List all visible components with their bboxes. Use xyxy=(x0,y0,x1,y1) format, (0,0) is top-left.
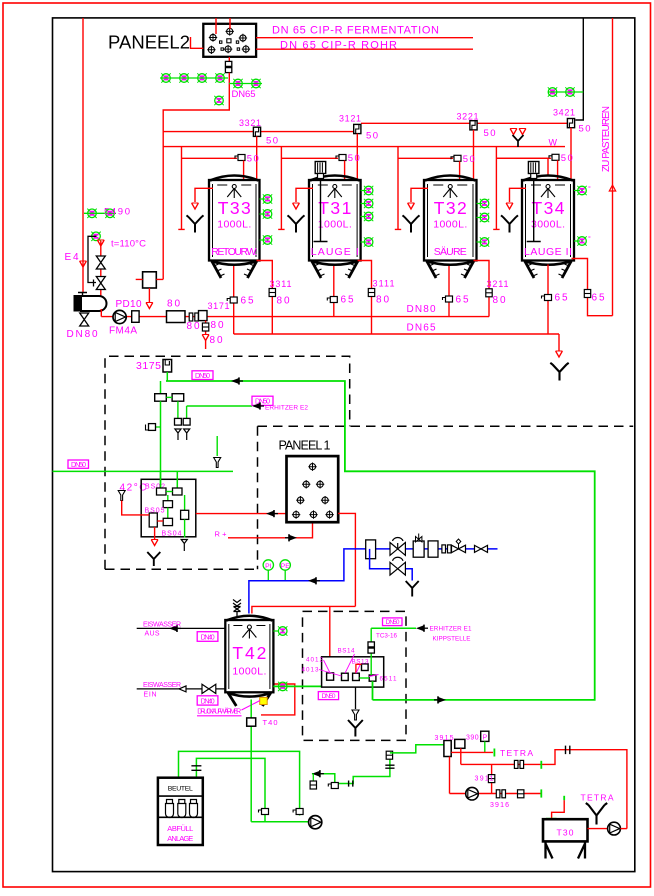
green feeds into box xyxy=(161,471,178,488)
svg-text:50: 50 xyxy=(266,136,278,147)
instrument circle T42 top xyxy=(273,630,278,632)
svg-text:3121: 3121 xyxy=(339,114,361,124)
CIP return funnel T31 xyxy=(288,188,314,232)
CIP-R FERMENTATION line xyxy=(256,37,473,39)
svg-text:AUS: AUS xyxy=(145,630,160,637)
svg-text:3000L.: 3000L. xyxy=(531,219,565,231)
svg-text:1000L.: 1000L. xyxy=(217,219,251,231)
tank T42 xyxy=(225,616,273,706)
group box xyxy=(141,479,196,537)
wire 3175 down xyxy=(166,372,168,381)
svg-text:3171: 3171 xyxy=(208,301,230,311)
pipe coupling below panel xyxy=(225,61,231,72)
T34 outlet valve 65 xyxy=(547,265,549,335)
valve 3421 xyxy=(567,119,574,128)
header line B xyxy=(361,122,567,124)
zu pasteuren pipe xyxy=(612,18,614,316)
svg-text:BEUTEL: BEUTEL xyxy=(168,786,193,793)
svg-text:T32: T32 xyxy=(434,198,467,218)
instrument circle t110 xyxy=(91,232,100,241)
svg-text:65: 65 xyxy=(555,293,568,304)
valve 3911 xyxy=(491,764,493,793)
agitator motor T34 xyxy=(527,162,541,242)
svg-text:°: ° xyxy=(588,235,591,243)
svg-text:DN80: DN80 xyxy=(407,304,436,315)
instrument circles row2 xyxy=(233,79,242,88)
group drain funnel xyxy=(355,687,357,709)
hot water to paneel1 xyxy=(196,513,287,515)
wire panel bottom to coupling xyxy=(228,57,230,62)
T33 outlet valve 65 xyxy=(233,266,235,334)
svg-text:80: 80 xyxy=(211,320,224,331)
small coupler xyxy=(442,545,451,553)
heat exchanger E4 xyxy=(74,293,107,312)
drain valve under exchanger xyxy=(80,313,89,326)
T34 side outlet to pasteur line xyxy=(572,259,613,316)
header line C xyxy=(163,146,565,148)
DN65 header pipe xyxy=(234,333,559,335)
tag DN50 xyxy=(192,371,213,380)
small valve with diamond xyxy=(452,539,466,553)
svg-text:50: 50 xyxy=(463,154,475,165)
T32 outlet valve 65 xyxy=(448,266,450,317)
instrument circles T34 xyxy=(574,186,587,246)
spray arrows between 3221 and 3421 xyxy=(510,129,517,135)
svg-text:3175: 3175 xyxy=(136,360,161,372)
svg-text:DN 65 CIP-R ROHR: DN 65 CIP-R ROHR xyxy=(280,39,397,51)
red pressure circuit xyxy=(261,684,295,715)
DN65 end drop with funnel xyxy=(558,334,560,351)
group box xyxy=(322,657,384,687)
main green supply line xyxy=(166,381,595,700)
valve on branch B xyxy=(259,809,269,815)
agitator motor T31 xyxy=(314,162,328,242)
instrument circles T31 xyxy=(361,186,374,247)
svg-text:SÄURE: SÄURE xyxy=(434,246,467,258)
svg-text:50: 50 xyxy=(579,124,591,135)
arrow on supply line xyxy=(231,377,243,384)
valve 3321 xyxy=(253,127,260,136)
tag DN50 xyxy=(318,692,338,701)
svg-text:80: 80 xyxy=(187,321,200,332)
valve 4013 xyxy=(342,673,349,680)
svg-text:DN 65 CIP-R FERMENTATION: DN 65 CIP-R FERMENTATION xyxy=(272,25,439,37)
funnel under spray arrows xyxy=(513,135,524,147)
terminals xyxy=(308,463,316,471)
svg-text:ABFÜLL: ABFÜLL xyxy=(167,824,193,833)
svg-text:65: 65 xyxy=(456,295,469,306)
svg-text:1000L.: 1000L. xyxy=(433,219,467,231)
dashed box automation left xyxy=(105,356,350,569)
svg-text:3321: 3321 xyxy=(239,118,261,128)
funnel near T30 xyxy=(586,803,607,825)
svg-text:3911: 3911 xyxy=(475,776,494,783)
red feed from paneel xyxy=(252,606,356,613)
suction main xyxy=(251,821,308,823)
valve 6511 xyxy=(369,675,376,681)
tetra line 2 xyxy=(461,750,627,829)
svg-text:TETRA: TETRA xyxy=(581,793,614,803)
svg-text:T31: T31 xyxy=(318,198,351,218)
instrument circles T33 xyxy=(260,194,273,244)
red links in group xyxy=(356,664,362,673)
arrow on heavy return xyxy=(434,696,446,703)
tetra line 3 xyxy=(450,793,542,795)
svg-text:80: 80 xyxy=(277,296,290,307)
svg-text:3916: 3916 xyxy=(490,802,509,809)
steam drop pipe xyxy=(100,241,102,296)
wire coupling down and left xyxy=(163,73,229,280)
T31 outlet valve 65 xyxy=(333,266,335,317)
blue control valve 1 xyxy=(390,537,405,555)
valve BS13 xyxy=(353,673,360,680)
blue main pipe xyxy=(249,549,498,614)
svg-text:50: 50 xyxy=(247,154,259,165)
svg-text:50: 50 xyxy=(484,128,496,139)
svg-text:°: ° xyxy=(588,185,591,193)
T32 side outlet 3211 xyxy=(474,261,490,317)
svg-text:DN40: DN40 xyxy=(201,698,215,705)
inline unit T40 xyxy=(247,718,256,726)
steam valve 2 xyxy=(96,277,105,290)
svg-text:50: 50 xyxy=(561,153,573,164)
svg-text:ERHITZER E1: ERHITZER E1 xyxy=(430,626,472,633)
svg-text:T40: T40 xyxy=(263,718,278,727)
svg-text:EISWASSER: EISWASSER xyxy=(143,682,181,689)
wire 3221 drop xyxy=(473,130,475,179)
CIP return funnel T34 xyxy=(501,188,526,232)
small bowtie end xyxy=(475,545,488,552)
druckaufwaermer marker xyxy=(260,697,268,704)
svg-text:DN40: DN40 xyxy=(201,634,215,641)
return line R xyxy=(228,522,313,538)
svg-text:3421: 3421 xyxy=(553,108,575,118)
svg-text:DRUCKAUFWÄRMER: DRUCKAUFWÄRMER xyxy=(197,708,241,716)
svg-text:65: 65 xyxy=(592,293,605,304)
safety valve on top xyxy=(233,600,241,617)
condensate drop xyxy=(154,527,156,539)
tank 50-valve feed lines xyxy=(182,157,238,159)
tank T34 xyxy=(522,176,574,279)
svg-text:65: 65 xyxy=(241,296,254,307)
valve 3221 xyxy=(470,121,477,130)
filter box 80 xyxy=(167,311,186,323)
panel box xyxy=(287,456,339,522)
svg-text:DN50: DN50 xyxy=(71,462,86,469)
svg-text:3311: 3311 xyxy=(270,279,292,289)
tank T32 xyxy=(424,176,477,279)
svg-text:PD10: PD10 xyxy=(116,299,142,310)
svg-text:50: 50 xyxy=(348,153,360,164)
black bracket wire xyxy=(88,236,96,282)
PI PE sensors xyxy=(263,560,273,581)
svg-text:BS13: BS13 xyxy=(352,659,369,666)
eiswasser in line xyxy=(137,688,226,690)
filler cabinet xyxy=(158,778,203,845)
tank T31 xyxy=(309,176,361,279)
capped drop pipes between tanks xyxy=(178,147,184,230)
svg-text:W: W xyxy=(549,138,558,148)
instrument circle pair top right xyxy=(548,91,583,93)
main left riser pipe xyxy=(82,18,84,292)
svg-text:DN80: DN80 xyxy=(67,329,98,340)
blue rect 2 xyxy=(428,541,438,557)
valve 3901 xyxy=(455,739,465,748)
red branch to valve group xyxy=(329,606,331,673)
panel out to T42 xyxy=(338,513,355,606)
line to erhitzer E2 xyxy=(187,405,252,407)
svg-text:t=110°C: t=110°C xyxy=(111,239,146,250)
black wire from top border to valve 3421 xyxy=(575,18,583,120)
wire left L into panel xyxy=(191,37,204,48)
pump FM4A xyxy=(113,310,126,323)
svg-text:RETOURW.: RETOURW. xyxy=(211,246,257,258)
CIP return funnel T33 xyxy=(187,188,214,232)
svg-text:3211: 3211 xyxy=(487,279,509,289)
wire feeds from top border into panel xyxy=(216,18,230,34)
pump bottom xyxy=(309,816,322,829)
svg-text:80: 80 xyxy=(376,295,389,306)
svg-text:DN50: DN50 xyxy=(386,619,400,626)
svg-text:PI: PI xyxy=(265,563,272,570)
junction box on riser xyxy=(143,272,157,288)
svg-text:TC3-16: TC3-16 xyxy=(376,633,397,640)
svg-text:80: 80 xyxy=(167,299,180,310)
svg-text:T30: T30 xyxy=(557,828,574,838)
svg-text:ANLAGE: ANLAGE xyxy=(167,834,193,843)
tank T30 xyxy=(543,819,588,858)
svg-text:1000L.: 1000L. xyxy=(232,666,266,678)
svg-text:T34: T34 xyxy=(532,198,565,218)
dashed box T42 valves xyxy=(303,611,407,740)
panel box PANEEL2 xyxy=(203,24,256,57)
up arrow xyxy=(609,185,615,191)
svg-text:4012: 4012 xyxy=(306,657,323,664)
steam valve 1 xyxy=(96,256,105,269)
kippstelle line xyxy=(371,627,416,629)
feed elbow into T34 dome xyxy=(496,158,548,174)
cold water line down xyxy=(160,401,162,488)
blue tall valve xyxy=(366,540,376,559)
svg-text:DN65: DN65 xyxy=(407,323,436,334)
valve 3121 xyxy=(354,124,361,133)
blue branch with funnel xyxy=(370,549,413,581)
pressure sensor P xyxy=(481,731,489,741)
DN80 header pipe xyxy=(101,316,489,318)
arrow on riser xyxy=(80,261,87,267)
svg-text:T33: T33 xyxy=(218,198,251,218)
T31 side outlet 3111 xyxy=(358,261,372,335)
header line A xyxy=(163,131,353,133)
sterile filter xyxy=(191,766,201,771)
side tap symbol xyxy=(149,426,161,428)
wire 3321 drop xyxy=(256,136,258,178)
instrument circles T32 xyxy=(477,199,490,247)
kippstelle riser xyxy=(370,628,372,675)
svg-text:LAUGE I: LAUGE I xyxy=(311,246,359,258)
cluster wire row2 xyxy=(229,83,262,85)
svg-text:EIN: EIN xyxy=(144,691,157,698)
mixer rects xyxy=(157,488,167,495)
vent branch 1 xyxy=(177,401,179,418)
valve 3171 xyxy=(199,311,208,321)
instrument circles row1 xyxy=(161,73,170,82)
vent branch 2 xyxy=(186,406,188,418)
check valve PD10 xyxy=(132,311,139,323)
CIP-R ROHR line xyxy=(256,48,473,50)
arrow on steam pipe xyxy=(97,240,104,246)
valve 4012 xyxy=(327,673,334,680)
svg-text:P: P xyxy=(482,735,487,742)
green links in group xyxy=(359,677,369,679)
svg-text:65: 65 xyxy=(341,295,354,306)
tetra hose 1 xyxy=(451,751,493,753)
wire 3421 drop xyxy=(570,128,572,179)
svg-text:BS04: BS04 xyxy=(162,531,182,538)
svg-text:PE: PE xyxy=(281,563,291,570)
valve 3915 xyxy=(444,741,451,757)
svg-text:DN50: DN50 xyxy=(195,373,210,380)
junction risers xyxy=(450,748,461,793)
terminals in PANEEL2 xyxy=(209,33,217,41)
svg-text:PANEEL2: PANEEL2 xyxy=(108,32,190,53)
return staircase xyxy=(312,759,390,784)
wire 3121 drop xyxy=(356,134,358,179)
svg-text:DN65: DN65 xyxy=(232,89,256,100)
svg-text:3111: 3111 xyxy=(373,279,395,289)
svg-text:80: 80 xyxy=(493,295,506,306)
T30 fill drop xyxy=(563,796,565,801)
tank T33 xyxy=(209,176,260,279)
T33 side outlet 3311 xyxy=(257,261,273,335)
svg-text:PANEEL 1: PANEEL 1 xyxy=(279,439,331,453)
svg-text:4013: 4013 xyxy=(302,667,319,674)
T42 side outlet green xyxy=(273,681,345,687)
instrument circle DN65 xyxy=(214,96,223,105)
svg-text:50: 50 xyxy=(366,131,378,142)
eiswasser out line xyxy=(137,627,226,629)
svg-text:1000L.: 1000L. xyxy=(318,219,352,231)
exchanger outlet elbow xyxy=(100,309,102,317)
vent stub over mix line xyxy=(216,436,218,456)
T30 discharge pump xyxy=(588,828,608,830)
svg-text:ERHITZER E2: ERHITZER E2 xyxy=(265,405,308,412)
mix water line xyxy=(53,470,234,472)
svg-text:3915: 3915 xyxy=(435,735,454,742)
cluster wire row1 xyxy=(160,77,228,79)
sample valve on riser rect xyxy=(413,541,424,557)
T42 bottom outlet green xyxy=(250,700,252,822)
instrument pair 5490 xyxy=(84,212,116,214)
filler feed lines xyxy=(179,751,300,815)
drain tap 80 xyxy=(205,321,207,334)
svg-text:3221: 3221 xyxy=(457,112,479,122)
tag DN50 xyxy=(68,460,89,469)
instrument circle T42 bottom xyxy=(278,682,287,691)
svg-text:FM4A: FM4A xyxy=(109,326,137,337)
steam feed red into box xyxy=(118,491,125,501)
svg-text:LAUGE II: LAUGE II xyxy=(524,246,572,258)
svg-text:KIPPSTELLE: KIPPSTELLE xyxy=(433,636,471,643)
svg-text:80: 80 xyxy=(210,335,223,346)
CIP return funnel T32 xyxy=(403,188,429,232)
svg-text:6511: 6511 xyxy=(380,676,397,683)
svg-text:5490: 5490 xyxy=(104,207,130,218)
svg-text:ZU PASTEUREN: ZU PASTEUREN xyxy=(601,106,612,172)
coupler xyxy=(189,313,198,321)
svg-text:DN50: DN50 xyxy=(322,693,336,700)
valve on branch C xyxy=(293,809,303,815)
valve BS14 xyxy=(362,664,369,671)
dashed line paneel1 top xyxy=(258,426,634,569)
svg-text:BS14: BS14 xyxy=(338,648,355,655)
svg-text:EISWASSER: EISWASSER xyxy=(143,622,181,629)
svg-text:TETRA: TETRA xyxy=(500,748,533,758)
manifold rects pair xyxy=(160,381,162,394)
svg-text:T42: T42 xyxy=(232,643,266,663)
